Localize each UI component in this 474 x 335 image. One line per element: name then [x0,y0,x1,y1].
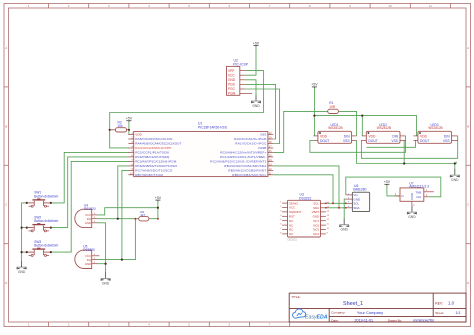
svg-text:DS3231: DS3231 [288,237,298,241]
svg-text:NC4: NC4 [313,232,319,236]
svg-text:Out: Out [416,195,421,199]
svg-text:PGD: PGD [228,83,236,87]
svg-text:Button-6x6x6mm: Button-6x6x6mm [34,219,58,223]
svg-text:10k: 10k [118,124,124,128]
svg-text:B: B [467,124,469,128]
svg-text:Drawn By:: Drawn By: [388,318,402,322]
svg-text:DS3231: DS3231 [299,196,311,200]
svg-text:D: D [467,281,469,285]
svg-text:VSS: VSS [260,133,266,137]
svg-text:RC7/AN9/SDO/T1OSCO: RC7/AN9/SDO/T1OSCO [135,169,173,173]
svg-text:Your Company: Your Company [357,310,383,315]
svg-text:11: 11 [429,4,432,8]
svg-text:GND: GND [85,262,91,266]
svg-text:32KHZ: 32KHZ [289,201,298,205]
svg-text:A: A [467,46,469,50]
svg-text:SQW/INT: SQW/INT [289,210,302,214]
svg-text:GND: GND [313,215,319,219]
svg-text:1.0: 1.0 [448,301,455,306]
svg-text:RC2/AN6/P1D/C12IN2-/CVREF/INT2: RC2/AN6/P1D/C12IN2-/CVREF/INT2 [210,160,266,164]
svg-text:PIC-ICSP: PIC-ICSP [233,62,248,66]
svg-text:4k7: 4k7 [140,213,145,217]
svg-text:VDD: VDD [368,134,376,138]
svg-text:VSS: VSS [343,139,350,143]
svg-text:RB4/AN10/IOCB4/SDI/SDA: RB4/AN10/IOCB4/SDI/SDA [224,164,267,168]
svg-text:WS2812B: WS2812B [377,126,391,130]
svg-text:SDA: SDA [353,206,359,210]
svg-text:WS2812B: WS2812B [428,126,442,130]
svg-text:NC6: NC6 [313,223,319,227]
svg-text:TAB: TAB [416,190,422,194]
svg-text:VCC: VCC [289,206,295,210]
svg-text:VPP: VPP [228,69,234,73]
svg-text:REV:: REV: [435,302,443,306]
svg-text:VDD: VDD [420,134,428,138]
svg-text:NC5: NC5 [313,228,319,232]
svg-text:In: In [401,194,404,198]
svg-text:10: 10 [389,4,393,8]
svg-text:NC: NC [289,223,293,227]
svg-text:Sheet_1: Sheet_1 [343,301,363,307]
svg-text:DOUT: DOUT [320,139,329,143]
svg-text:RC5/CCP1/P1A/T0CKI: RC5/CCP1/P1A/T0CKI [135,151,169,155]
svg-text:NC7: NC7 [313,219,319,223]
svg-text:C: C [5,203,7,207]
svg-text:NC: NC [289,228,293,232]
svg-text:RB5/AN11/IOCB5/RX/DT: RB5/AN11/IOCB5/RX/DT [228,169,266,173]
svg-text:RC3/AN7/P1C/C12IN3-/PGM: RC3/AN7/P1C/C12IN3-/PGM [135,160,176,164]
svg-text:2019-11-01: 2019-11-01 [355,319,374,323]
svg-text:RA4/AN3/IOCA4/OSC2/CLKOUT: RA4/AN3/IOCA4/OSC2/CLKOUT [135,142,181,146]
svg-text:VSS: VSS [443,139,450,143]
svg-text:EasyEDA: EasyEDA [305,314,328,320]
svg-text:DOUT: DOUT [420,139,429,143]
svg-text:RC6/AN8/SS/T13CKI/T1OSCI: RC6/AN8/SS/T13CKI/T1OSCI [135,164,177,168]
svg-text:D: D [5,281,7,285]
svg-text:10R: 10R [329,105,336,109]
svg-text:DS1820: DS1820 [83,248,95,252]
svg-text:BME280: BME280 [353,188,366,192]
svg-text:RC1/AN5/C12IN1-/INT1/VREF-: RC1/AN5/C12IN1-/INT1/VREF- [220,155,266,159]
svg-text:WS2812B: WS2812B [328,126,342,130]
svg-text:DIN: DIN [444,134,450,138]
svg-text:Company:: Company: [331,311,345,315]
svg-text:SCL: SCL [313,202,319,206]
svg-text:1/1: 1/1 [456,311,461,315]
svg-text:DS1820: DS1820 [84,207,96,211]
svg-text:RA5/IOCA5/OSC1/CLKIN: RA5/IOCA5/OSC1/CLKIN [135,137,172,141]
svg-text:A: A [5,46,7,50]
svg-text:NC: NC [289,232,293,236]
svg-text:RB7/IOCB7/TX/CK: RB7/IOCB7/TX/CK [135,173,164,177]
svg-text:B: B [5,124,7,128]
svg-text:AMS1117-3.3: AMS1117-3.3 [409,185,429,189]
svg-text:Sheet:: Sheet: [435,311,444,315]
svg-text:VCC: VCC [228,73,235,77]
svg-text:RA3/IOCA3/MCLR/VPP: RA3/IOCA3/MCLR/VPP [135,146,171,150]
svg-text:VDD: VDD [320,134,328,138]
svg-text:C: C [467,203,469,207]
svg-text:RA1/IOCA1/D-/PGC: RA1/IOCA1/D-/PGC [235,142,267,146]
svg-text:GND: GND [410,192,414,200]
svg-text:PGC: PGC [228,87,236,91]
svg-text:RC0/AN4/C12IN+/INT0/VREF+: RC0/AN4/C12IN+/INT0/VREF+ [220,151,266,155]
svg-text:VDD: VDD [135,133,142,137]
svg-text:RB6/IOCB6/SCK/SCL: RB6/IOCB6/SCK/SCL [232,173,266,177]
svg-text:SCL: SCL [353,202,359,206]
svg-text:mmlmpw7thr: mmlmpw7thr [413,319,435,323]
svg-text:VUSB: VUSB [258,146,266,150]
svg-text:TITLE:: TITLE: [291,295,300,299]
svg-text:Date:: Date: [331,318,339,322]
svg-text:RC4/P1B/C12OUT/SRQ: RC4/P1B/C12OUT/SRQ [135,155,170,159]
svg-text:Button-6x6x6mm: Button-6x6x6mm [34,194,58,198]
svg-text:GND: GND [85,221,91,225]
svg-text:Button-6x6x6mm: Button-6x6x6mm [34,244,58,248]
svg-text:DOUT: DOUT [368,139,377,143]
svg-text:RST: RST [289,215,295,219]
svg-text:GND: GND [228,78,236,82]
svg-text:DIN: DIN [344,134,350,138]
svg-text:RA0/IOCA0/D+/PGD: RA0/IOCA0/D+/PGD [234,137,267,141]
svg-text:VBAT: VBAT [312,210,320,214]
svg-text:PIC18F14K50-I/SS: PIC18F14K50-I/SS [198,126,228,130]
svg-text:NC: NC [289,219,293,223]
svg-text:DIN: DIN [392,134,398,138]
svg-text:PGM: PGM [228,92,236,96]
svg-text:VSS: VSS [391,139,398,143]
